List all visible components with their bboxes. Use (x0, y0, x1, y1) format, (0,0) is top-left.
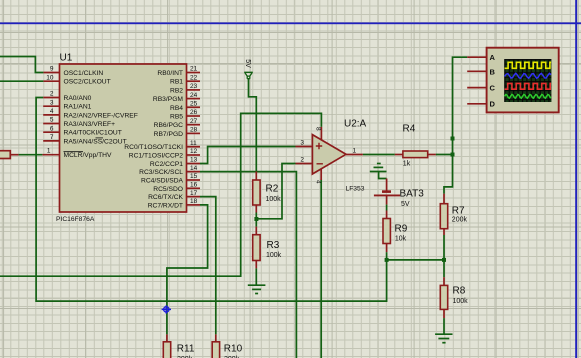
svg-text:RB5: RB5 (170, 114, 183, 121)
wire pin14 long to bottom off-sheet (200, 172, 296, 358)
svg-text:RB0/INT: RB0/INT (157, 70, 183, 77)
wire pin18 down to R11 (167, 205, 208, 335)
svg-text:13: 13 (190, 157, 198, 164)
U2:A pin 1 output stub (346, 147, 363, 154)
U2:A pin 3 stub (296, 139, 313, 146)
svg-text:26: 26 (190, 109, 198, 116)
svg-text:RA0/AN0: RA0/AN0 (64, 95, 92, 102)
scope pin C (467, 83, 495, 92)
op-amp U2:A LF353 (312, 119, 366, 193)
svg-text:10: 10 (46, 74, 54, 81)
U2:A pin 4 stub (315, 169, 322, 184)
svg-text:3: 3 (50, 99, 54, 106)
wire MCLR resistor to pin1 (19, 154, 43, 156)
scope screen (504, 59, 551, 102)
U1 pin 3 RA1/AN1 (43, 99, 91, 110)
resistor R10 (bottom) (212, 334, 242, 358)
svg-text:RC6/TX/CK: RC6/TX/CK (148, 194, 183, 201)
svg-text:5V: 5V (244, 59, 251, 68)
resistor R3 100k (253, 227, 282, 269)
U1 pin 4 RA2/AN2/VREF-/CVREF (43, 108, 138, 119)
svg-text:RB1: RB1 (170, 79, 183, 86)
svg-text:100k: 100k (266, 252, 282, 259)
svg-text:8: 8 (315, 127, 322, 131)
svg-text:R8: R8 (453, 286, 466, 297)
U1 pin 25 RB4 (170, 101, 200, 112)
svg-text:RA5/AN4/SS/C2OUT: RA5/AN4/SS/C2OUT (64, 138, 127, 145)
svg-text:BAT3: BAT3 (400, 189, 425, 200)
svg-text:RA2/AN2/VREF-/CVREF: RA2/AN2/VREF-/CVREF (64, 112, 138, 119)
svg-text:R3: R3 (267, 240, 280, 251)
wire pin17 down to R10 (200, 197, 216, 335)
svg-text:U2:A: U2:A (344, 119, 367, 130)
svg-text:RA1/AN1: RA1/AN1 (64, 104, 92, 111)
scope trace B blue noisy sine (505, 73, 551, 78)
svg-text:RC1/T1OSI/CCP2: RC1/T1OSI/CCP2 (129, 153, 184, 160)
svg-text:28: 28 (190, 127, 198, 134)
junction at R4 output (451, 153, 455, 157)
svg-text:RB3/PGM: RB3/PGM (153, 96, 184, 103)
svg-text:R10: R10 (224, 344, 243, 355)
svg-text:2: 2 (300, 156, 304, 163)
scope pin B (467, 67, 495, 76)
sheet border right (blue) (575, 0, 577, 358)
wire op-amp minus input to divider (257, 164, 296, 219)
wire R3 to ground (255, 268, 257, 284)
svg-text:15: 15 (190, 173, 198, 180)
svg-text:24: 24 (190, 92, 198, 99)
svg-text:RC7/RX/DT: RC7/RX/DT (148, 202, 183, 209)
svg-text:17: 17 (190, 190, 198, 197)
U1 pin 24 RB3/PGM (153, 92, 200, 103)
U1 pin 21 RB0/INT (157, 66, 200, 77)
wire R9 to junction (386, 252, 388, 260)
svg-text:C: C (490, 83, 496, 92)
svg-text:RB7/PGD: RB7/PGD (154, 131, 184, 138)
svg-text:RB2: RB2 (170, 87, 183, 94)
svg-text:2: 2 (50, 91, 54, 98)
scope pin D (467, 100, 495, 109)
svg-text:A: A (490, 53, 496, 62)
resistor R8 100k (440, 277, 468, 318)
sheet border top (blue) (0, 22, 581, 24)
wire battery to R9 (386, 205, 388, 211)
svg-text:RA4/T0CKI/C1OUT: RA4/T0CKI/C1OUT (64, 130, 122, 137)
U1 pin 14 RC3/SCK/SCL (139, 165, 200, 176)
U1 pin 12 RC1/T1OSI/CCP2 (129, 148, 200, 159)
svg-text:R11: R11 (177, 344, 195, 355)
resistor R2 100k (253, 171, 281, 212)
U1 pin 2 RA0/AN0 (43, 91, 91, 102)
scope pin A (467, 53, 495, 62)
svg-text:11: 11 (190, 140, 197, 147)
wire 5V rail down to R2 (249, 79, 257, 172)
svg-text:100k: 100k (266, 196, 282, 203)
U2:A pin 2 stub (296, 156, 313, 163)
svg-text:R7: R7 (452, 206, 465, 217)
wire R4 to scope junction (436, 154, 453, 156)
wire R8 to ground (443, 318, 445, 334)
U1 pin 26 RB5 (170, 109, 200, 120)
U1 pin 28 RB7/PGD (154, 127, 200, 138)
svg-text:RB6/PGC: RB6/PGC (154, 122, 184, 129)
svg-text:3: 3 (300, 139, 304, 146)
svg-text:1: 1 (353, 147, 357, 154)
svg-text:R9: R9 (395, 224, 408, 235)
U1 pin 23 RB2 (170, 83, 200, 94)
power symbol 5V (244, 59, 253, 78)
wire junction down to R7 (444, 155, 453, 194)
svg-text:RB4: RB4 (170, 105, 183, 112)
svg-text:5: 5 (50, 117, 54, 124)
resistor (off-sheet) at MCLR (0, 151, 19, 159)
wire pin2 AN0 down-right to divider junction (36, 98, 387, 302)
svg-text:25: 25 (190, 101, 198, 108)
oscilloscope body (487, 48, 559, 113)
wire R2 to R3 with junction (255, 213, 257, 227)
svg-text:5V: 5V (401, 201, 410, 208)
svg-text:16: 16 (190, 182, 198, 189)
wire op-amp V+ rail to left off-sheet (0, 113, 321, 276)
wire R7 to junction row (443, 235, 445, 260)
inverted ground above battery (370, 164, 387, 179)
svg-text:PIC16F876A: PIC16F876A (56, 216, 95, 223)
resistor R9 10k (383, 211, 408, 253)
IC U1 PIC16F876A body (56, 53, 187, 224)
ground below R8 (435, 334, 452, 343)
scope trace C red square (505, 83, 551, 89)
svg-text:D: D (490, 100, 496, 109)
wire op-amp V- pin4 down off-sheet (320, 180, 322, 358)
svg-text:1k: 1k (403, 161, 411, 168)
U1 pin 13 RC2/CCP1 (150, 157, 200, 168)
U1 pin 7 RA5/AN4/SS/C2OUT (43, 134, 126, 145)
scope trace A yellow square (505, 62, 551, 68)
wire junction down to R8 (443, 260, 445, 277)
svg-text:27: 27 (190, 118, 198, 125)
svg-text:R2: R2 (266, 184, 279, 195)
svg-text:22: 22 (190, 74, 198, 81)
U1 pin 10 OSC2/CLKOUT (43, 74, 110, 85)
resistor R11 (bottom) (163, 334, 195, 358)
svg-text:18: 18 (190, 198, 198, 205)
battery BAT3 5V (374, 179, 424, 209)
resistor R4 1k (395, 124, 436, 168)
svg-text:10k: 10k (395, 236, 407, 243)
svg-text:MCLR/Vpp/THV: MCLR/Vpp/THV (64, 152, 112, 159)
svg-text:RC5/SDO: RC5/SDO (153, 186, 183, 193)
U1 pin 11 RC0/T1OSO/T1CKI (124, 140, 200, 151)
svg-text:21: 21 (190, 66, 198, 73)
junction divider node (254, 217, 258, 221)
svg-text:23: 23 (190, 83, 198, 90)
svg-text:RC3/SCK/SCL: RC3/SCK/SCL (139, 169, 183, 176)
svg-text:OSC1/CLKIN: OSC1/CLKIN (64, 70, 104, 77)
junction dot on vertical (451, 137, 455, 141)
U1 pin 1 MCLR/Vpp/THV (42, 148, 112, 160)
ground below R3 (248, 285, 266, 293)
U1 pin 17 RC6/TX/CK (148, 190, 200, 201)
wire pin9 up and left off-sheet (0, 57, 43, 73)
wire pin13 to op-amp + input (200, 147, 296, 164)
wire junction up to scope input A (453, 57, 468, 154)
origin marker (blue crosshair) (162, 305, 171, 313)
wire op-amp output to R4 (363, 154, 395, 156)
junction left (R9 bottom) (385, 258, 389, 262)
U1 pin 18 RC7/RX/DT (148, 198, 200, 209)
U1 pin 9 OSC1/CLKIN (43, 66, 103, 77)
U2:A pin 8 stub (315, 127, 322, 140)
svg-text:R4: R4 (403, 124, 416, 135)
U1 pin 6 RA4/T0CKI/C1OUT (43, 125, 122, 136)
junction right (R7/R8) (442, 258, 446, 262)
svg-text:RC4/SDI/SDA: RC4/SDI/SDA (141, 178, 184, 185)
wire pin10 left off-sheet (0, 80, 43, 82)
resistor R7 200k (440, 194, 467, 235)
svg-text:100k: 100k (453, 298, 469, 305)
svg-text:U1: U1 (60, 53, 73, 64)
svg-text:12: 12 (190, 148, 198, 155)
U1 pin 5 RA3/AN3/VREF+ (43, 117, 115, 128)
svg-text:B: B (490, 67, 496, 76)
svg-text:4: 4 (50, 108, 54, 115)
svg-text:200k: 200k (452, 217, 468, 224)
svg-text:OSC2/CLKOUT: OSC2/CLKOUT (64, 79, 111, 86)
svg-text:14: 14 (190, 165, 198, 172)
U1 pin 22 RB1 (170, 74, 200, 85)
svg-text:RA3/AN3/VREF+: RA3/AN3/VREF+ (64, 121, 116, 128)
svg-text:LF353: LF353 (346, 186, 365, 193)
svg-text:RC2/CCP1: RC2/CCP1 (150, 161, 183, 168)
svg-text:7: 7 (50, 134, 54, 141)
svg-text:9: 9 (50, 66, 54, 73)
U1 pin 27 RB6/PGC (154, 118, 200, 129)
svg-text:1: 1 (47, 148, 51, 155)
wire junction row R9 to R7/R8 (387, 259, 444, 261)
svg-text:RC0/T1OSO/T1CKI: RC0/T1OSO/T1CKI (124, 144, 183, 151)
svg-text:4: 4 (315, 180, 322, 184)
svg-text:6: 6 (50, 125, 54, 132)
U1 pin 15 RC4/SDI/SDA (141, 173, 200, 184)
scope trace D green sine (505, 95, 551, 99)
U1 pin 16 RC5/SDO (153, 182, 200, 193)
